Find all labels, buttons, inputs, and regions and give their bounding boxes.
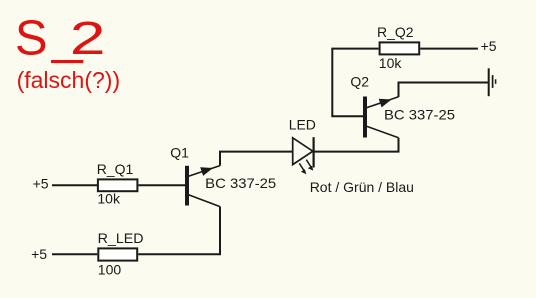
svg-text:(falsch(?)): (falsch(?)) bbox=[17, 67, 121, 93]
svg-text:BC 337-25: BC 337-25 bbox=[205, 175, 276, 191]
wire R_Q2 to Q2 base bbox=[332, 49, 378, 117]
wire R_Q2 to +5 bbox=[420, 48, 478, 50]
svg-text:Q2: Q2 bbox=[350, 74, 369, 90]
wire +5 to R_LED bbox=[52, 253, 97, 255]
svg-text:Rot / Grün / Blau: Rot / Grün / Blau bbox=[310, 179, 414, 195]
resistor R_Q1 bbox=[98, 179, 137, 191]
svg-text:+5: +5 bbox=[31, 246, 47, 262]
svg-text:100: 100 bbox=[98, 261, 122, 277]
ground bbox=[489, 68, 496, 96]
resistor R_LED bbox=[98, 248, 137, 260]
LED D1 bbox=[293, 137, 314, 174]
resistor R_Q2 bbox=[380, 42, 420, 54]
svg-text:R_Q1: R_Q1 bbox=[97, 161, 134, 177]
svg-text:10k: 10k bbox=[379, 55, 403, 71]
wire Q2 emitter to ground bbox=[399, 83, 489, 98]
svg-text:LED: LED bbox=[289, 117, 316, 133]
svg-text:R_Q2: R_Q2 bbox=[377, 24, 414, 40]
svg-text:2: 2 bbox=[70, 12, 106, 64]
svg-text:Q1: Q1 bbox=[170, 145, 189, 161]
svg-text:+5: +5 bbox=[33, 175, 49, 191]
transistor Q2 bbox=[363, 97, 399, 138]
wire +5 to R_Q1 bbox=[52, 184, 97, 186]
wire Q1 collector to R_LED bbox=[138, 207, 220, 255]
transistor Q1 bbox=[185, 166, 220, 207]
svg-text:R_LED: R_LED bbox=[98, 230, 144, 246]
svg-text:BC 337-25: BC 337-25 bbox=[384, 106, 455, 122]
wire R_Q1 to Q1 base bbox=[139, 184, 186, 186]
wire Q1 emitter to LED anode bbox=[220, 152, 293, 166]
wire Q2 collector to LED cathode bbox=[314, 138, 398, 152]
svg-text:S: S bbox=[15, 12, 48, 66]
title S_2 bbox=[15, 12, 106, 66]
svg-text:+5: +5 bbox=[481, 38, 497, 54]
svg-text:10k: 10k bbox=[97, 190, 121, 206]
